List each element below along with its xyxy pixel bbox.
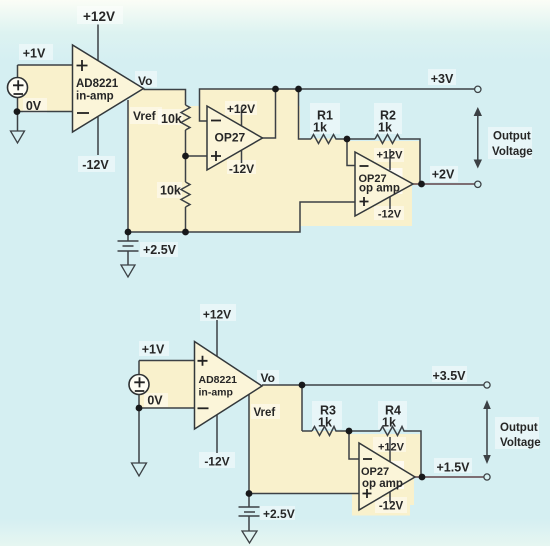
svg-text:1k: 1k bbox=[378, 121, 392, 135]
svg-text:+1V: +1V bbox=[142, 343, 165, 357]
svg-text:+3.5V: +3.5V bbox=[432, 369, 466, 383]
svg-text:0V: 0V bbox=[26, 99, 42, 113]
svg-text:+12V: +12V bbox=[203, 308, 231, 322]
svg-text:AD8221: AD8221 bbox=[76, 78, 119, 90]
svg-text:Voltage: Voltage bbox=[500, 437, 541, 449]
svg-text:Output: Output bbox=[493, 131, 531, 143]
svg-text:op amp: op amp bbox=[359, 183, 400, 195]
svg-text:+12V: +12V bbox=[83, 9, 115, 24]
svg-text:-12V: -12V bbox=[204, 455, 229, 469]
svg-text:-12V: -12V bbox=[229, 162, 254, 176]
svg-text:Vref: Vref bbox=[133, 109, 157, 123]
svg-text:AD8221: AD8221 bbox=[199, 374, 238, 386]
svg-text:-12V: -12V bbox=[82, 158, 109, 172]
svg-text:0V: 0V bbox=[147, 394, 163, 408]
svg-text:+12V: +12V bbox=[227, 102, 255, 116]
svg-text:in-amp: in-amp bbox=[199, 387, 233, 399]
svg-text:op amp: op amp bbox=[362, 478, 403, 490]
svg-text:+3V: +3V bbox=[431, 72, 454, 86]
svg-text:1k: 1k bbox=[382, 416, 396, 430]
svg-text:+12V: +12V bbox=[378, 442, 405, 454]
svg-text:Voltage: Voltage bbox=[492, 146, 533, 158]
svg-text:OP27: OP27 bbox=[361, 466, 389, 478]
svg-text:Vref: Vref bbox=[254, 407, 276, 419]
svg-text:-12V: -12V bbox=[379, 501, 404, 513]
svg-text:+2V: +2V bbox=[432, 168, 455, 182]
svg-text:in-amp: in-amp bbox=[76, 91, 114, 103]
svg-text:1k: 1k bbox=[318, 416, 332, 430]
svg-text:OP27: OP27 bbox=[215, 131, 246, 145]
svg-text:+2.5V: +2.5V bbox=[263, 507, 295, 521]
svg-text:1k: 1k bbox=[313, 121, 327, 135]
svg-text:+12V: +12V bbox=[377, 150, 404, 162]
svg-text:+1V: +1V bbox=[23, 47, 46, 61]
svg-text:Vo: Vo bbox=[138, 74, 152, 88]
svg-text:+1.5V: +1.5V bbox=[436, 461, 470, 475]
svg-text:-12V: -12V bbox=[378, 209, 402, 221]
svg-text:10k: 10k bbox=[160, 184, 181, 198]
svg-text:10k: 10k bbox=[161, 112, 182, 126]
svg-text:Vo: Vo bbox=[261, 371, 275, 385]
svg-text:Output: Output bbox=[500, 422, 538, 434]
svg-text:+2.5V: +2.5V bbox=[143, 243, 177, 257]
